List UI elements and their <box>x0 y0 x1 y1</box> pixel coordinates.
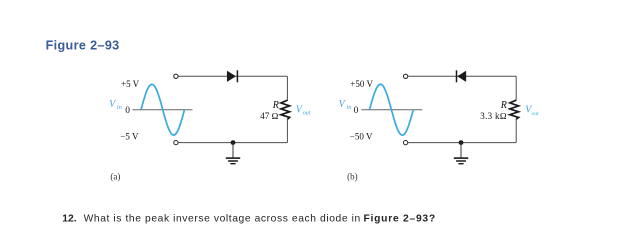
svg-text:0: 0 <box>354 106 359 116</box>
svg-text:−5 V: −5 V <box>120 132 139 142</box>
svg-text:3.3 kΩ: 3.3 kΩ <box>480 111 506 121</box>
svg-text:R: R <box>500 100 507 111</box>
svg-text:+50 V: +50 V <box>350 79 373 89</box>
svg-text:+5 V: +5 V <box>121 79 140 89</box>
svg-text:out: out <box>303 111 311 117</box>
svg-text:V: V <box>339 99 347 110</box>
svg-text:12.What is the peak inverse vo: 12.What is the peak inverse voltage acro… <box>62 214 435 225</box>
svg-text:out: out <box>532 111 540 117</box>
svg-text:in: in <box>347 104 352 111</box>
svg-text:R: R <box>272 100 279 111</box>
svg-text:0: 0 <box>125 106 130 116</box>
svg-text:(a): (a) <box>110 171 120 181</box>
svg-text:47 Ω: 47 Ω <box>260 111 278 121</box>
svg-text:in: in <box>117 104 122 111</box>
svg-text:−50 V: −50 V <box>350 132 373 142</box>
svg-text:(b): (b) <box>347 171 358 181</box>
svg-text:Figure 2–93: Figure 2–93 <box>46 38 120 52</box>
